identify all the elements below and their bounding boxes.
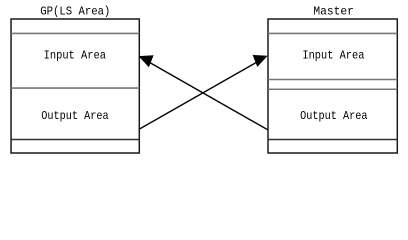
- wire Master-output to GP-input: [147, 61, 268, 130]
- GP box outline: [11, 19, 139, 153]
- Master footer line: [268, 139, 397, 141]
- GP divider line: [11, 87, 139, 89]
- arrowhead at GP input: [139, 55, 154, 67]
- svg-text:Output Area: Output Area: [41, 109, 108, 123]
- Master box outline: [268, 19, 397, 153]
- svg-text:Output Area: Output Area: [300, 109, 367, 123]
- svg-text:Master: Master: [313, 5, 354, 19]
- svg-text:GP(LS Area): GP(LS Area): [40, 5, 110, 19]
- Master lower divider line: [268, 88, 397, 90]
- arrowhead at Master input: [253, 55, 268, 67]
- wire GP-output to Master-input: [139, 61, 260, 130]
- Master upper divider line: [268, 79, 397, 81]
- svg-text:Input Area: Input Area: [44, 48, 106, 62]
- Master header line: [268, 32, 397, 34]
- GP header line: [11, 32, 139, 34]
- svg-text:Input Area: Input Area: [302, 48, 364, 62]
- GP footer line: [11, 139, 139, 141]
